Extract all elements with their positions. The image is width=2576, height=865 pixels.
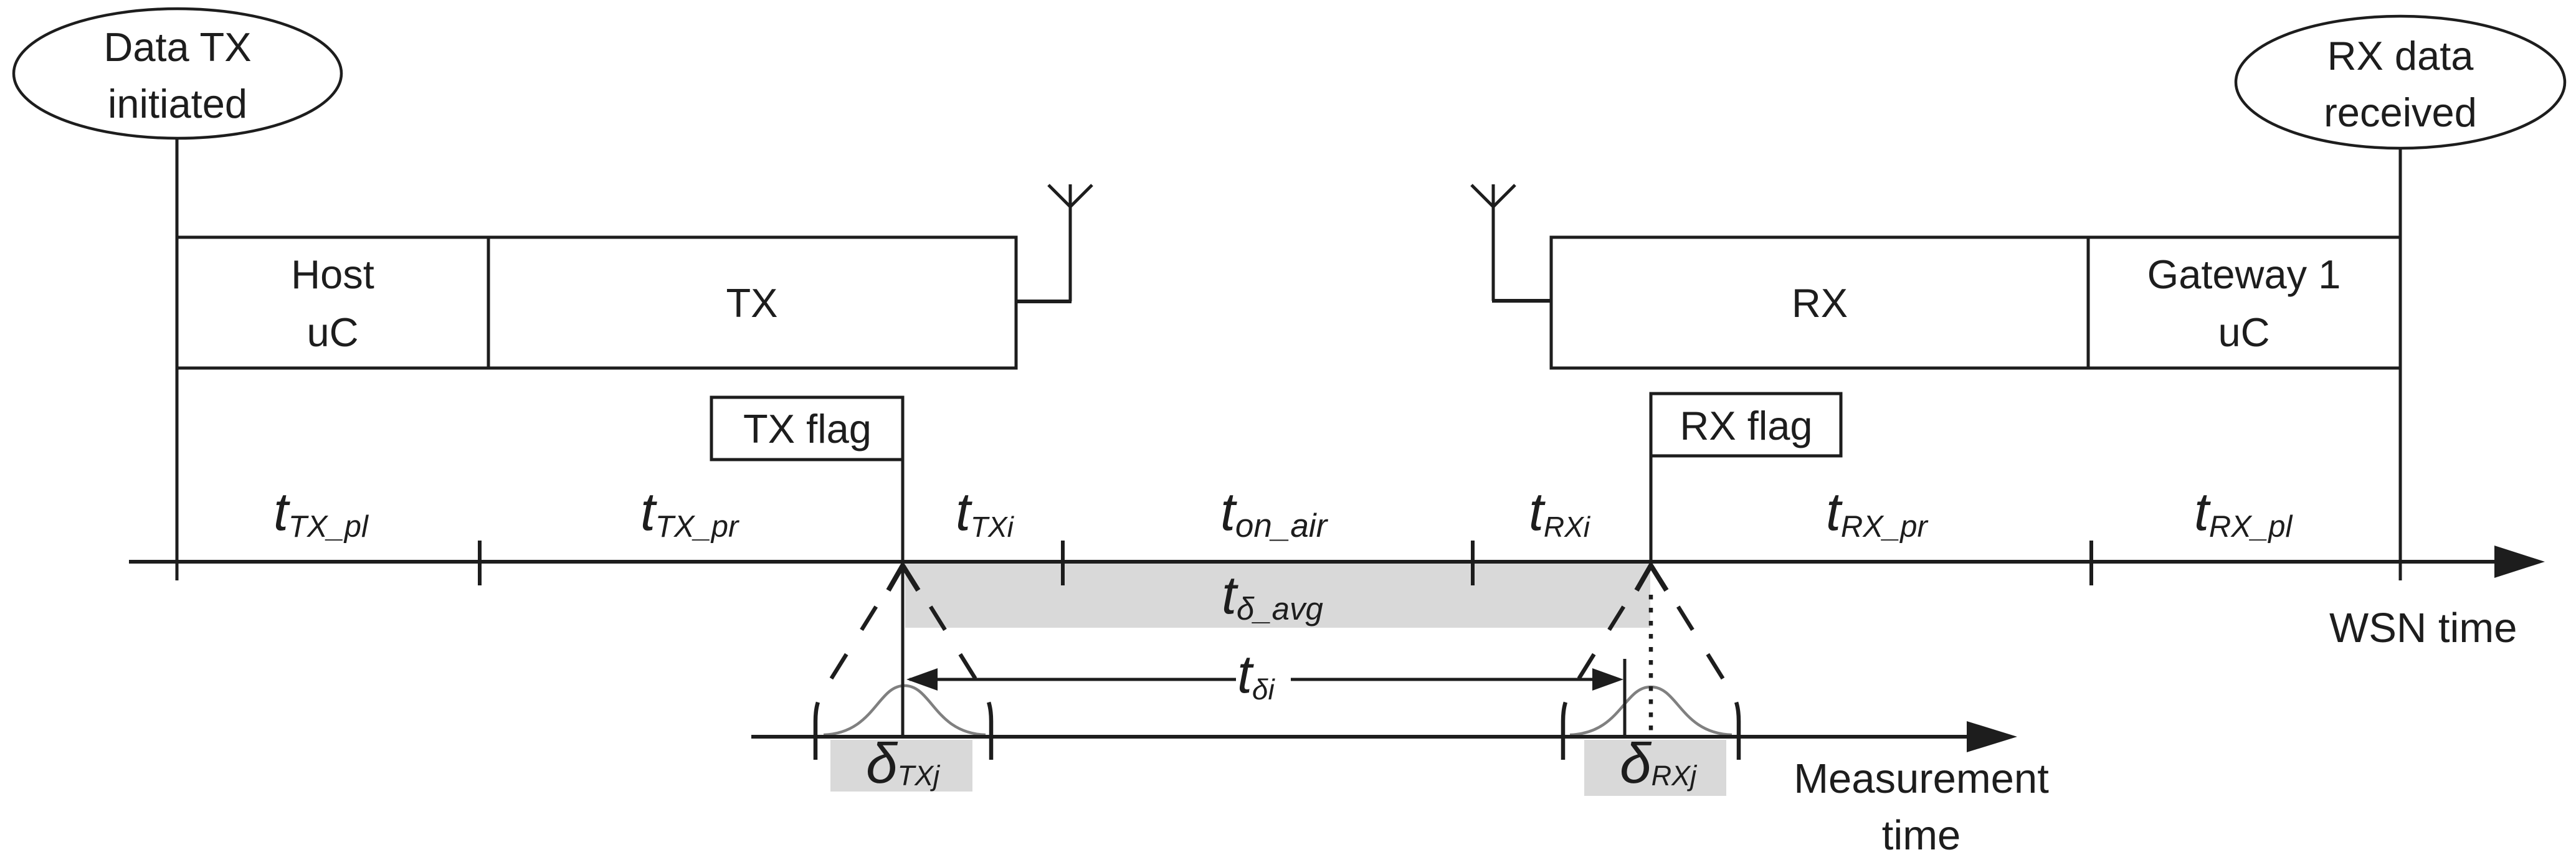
gaussian curve RX: [1570, 687, 1732, 735]
gaussian curve TX: [824, 686, 986, 735]
measurement axis arrowhead: [1967, 721, 2017, 752]
gray band t_delta_avg: [905, 562, 1650, 628]
t_delta_i arrow line right segment: [1291, 678, 1596, 681]
RX dashed bell right: [1652, 565, 1739, 760]
svg-text:received: received: [2324, 90, 2477, 135]
RX apex arrowhead: [1637, 565, 1666, 590]
gray rect delta_RXj: [1584, 740, 1726, 796]
svg-text:WSN time: WSN time: [2329, 605, 2517, 651]
tick t_on_air/t_RXi: [1471, 541, 1475, 585]
svg-text:time: time: [1882, 812, 1961, 859]
RX antenna arms: [1471, 185, 1515, 207]
ellipse Data TX initiated: [14, 9, 341, 138]
RX antenna connector: [1492, 299, 1551, 303]
TX dashed bell right: [905, 565, 991, 760]
TX dashed bell left: [815, 565, 902, 760]
tick t_TX_pl/t_TX_pr: [478, 541, 482, 585]
t_delta_i arrow line left segment: [910, 678, 1236, 681]
svg-text:RX: RX: [1792, 280, 1848, 326]
RX dashed bell left: [1563, 565, 1650, 760]
svg-text:RX flag: RX flag: [1680, 403, 1812, 448]
box RX + Gateway 1 uC: [1551, 237, 2400, 368]
t_delta_i right arrowhead: [1592, 668, 1623, 691]
svg-text:TX flag: TX flag: [743, 406, 872, 451]
TX antenna arms: [1048, 185, 1092, 207]
t_delta_i terminal bar: [1623, 659, 1627, 737]
svg-text:Gateway 1: Gateway 1: [2147, 252, 2341, 297]
TX apex arrowhead: [888, 565, 918, 590]
TX flag pole: [901, 399, 905, 737]
tick t_RX_pr/t_RX_pl: [2089, 541, 2093, 585]
stem from right ellipse: [2399, 146, 2402, 580]
RX dotted line: [1649, 595, 1653, 735]
TX flag box: [711, 397, 903, 460]
svg-text:TX: TX: [726, 280, 777, 326]
svg-text:uC: uC: [307, 310, 358, 355]
t_delta_i left arrowhead: [906, 668, 938, 691]
svg-text:initiated: initiated: [108, 81, 247, 126]
svg-text:Data TX: Data TX: [103, 24, 251, 70]
svg-text:Host: Host: [291, 252, 374, 297]
WSN axis arrowhead: [2494, 546, 2545, 578]
divider RX/Gateway: [2087, 237, 2090, 368]
TX antenna connector: [1016, 300, 1072, 303]
box Host uC + TX: [177, 237, 1016, 368]
RX flag box: [1651, 394, 1841, 456]
WSN time axis: [129, 560, 2498, 564]
svg-text:RX data: RX data: [2327, 33, 2474, 78]
svg-text:Measurement: Measurement: [1794, 755, 2049, 802]
ellipse RX data received: [2236, 16, 2565, 148]
measurement time axis: [751, 735, 1970, 739]
svg-text:uC: uC: [2218, 310, 2269, 355]
stem from left ellipse: [176, 137, 179, 580]
divider Host/TX: [487, 237, 490, 368]
RX antenna mast: [1492, 184, 1495, 301]
RX flag pole: [1650, 395, 1653, 564]
TX antenna mast: [1069, 184, 1072, 301]
gray rect delta_TXj: [830, 740, 972, 792]
tick t_TXi/t_on_air: [1061, 541, 1065, 585]
